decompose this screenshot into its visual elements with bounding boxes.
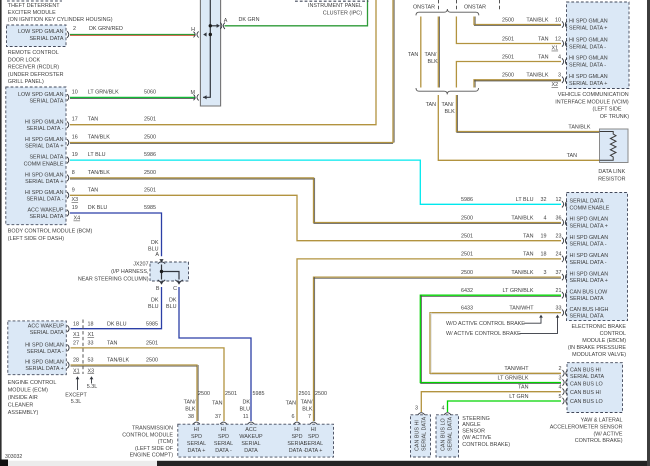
svg-text:TRANSMISSION: TRANSMISSION xyxy=(132,426,173,432)
wire DK BLU 5985 from JX207 C to TCM pin 11 xyxy=(179,287,251,421)
junction dot at H branch xyxy=(209,33,212,36)
svg-text:X1: X1 xyxy=(88,332,95,338)
svg-text:18: 18 xyxy=(73,321,79,327)
svg-text:BLU: BLU xyxy=(240,406,251,412)
svg-text:4: 4 xyxy=(559,385,562,391)
svg-text:5060: 5060 xyxy=(144,89,156,95)
svg-text:STEERING: STEERING xyxy=(462,416,490,422)
svg-text:TAN: TAN xyxy=(538,54,548,60)
svg-text:5: 5 xyxy=(559,394,562,400)
svg-text:SERIAL DATA +: SERIAL DATA + xyxy=(569,81,607,87)
bottom scrollbar xyxy=(0,460,8,466)
svg-text:SERIAL: SERIAL xyxy=(241,441,260,447)
svg-text:A: A xyxy=(155,252,159,258)
svg-text:2500: 2500 xyxy=(144,135,156,141)
svg-text:MODULE (ECM): MODULE (ECM) xyxy=(8,388,48,394)
svg-text:SERIAL DATA -: SERIAL DATA - xyxy=(26,126,63,132)
yaw sensor pin 2 CAN BUS HI SERIAL DATA xyxy=(563,370,568,377)
VCIM pin 10 HI SPD GMLAN SERIAL DATA + xyxy=(562,21,567,28)
svg-text:SERIAL DATA +: SERIAL DATA + xyxy=(25,179,63,185)
svg-text:SERIAL DATA: SERIAL DATA xyxy=(570,296,604,302)
wire TAN from steering sensor pin 3 to yaw sensor pin 4 xyxy=(421,392,561,412)
svg-text:6433: 6433 xyxy=(461,305,473,311)
svg-text:2501: 2501 xyxy=(146,341,158,347)
svg-text:2501: 2501 xyxy=(144,187,156,193)
svg-text:LT GRN/BLK: LT GRN/BLK xyxy=(503,288,534,294)
svg-text:6432: 6432 xyxy=(461,288,473,294)
svg-text:5986: 5986 xyxy=(461,197,473,203)
svg-text:SERIAL DATA +: SERIAL DATA + xyxy=(570,224,608,230)
cut-off module box bottom edge (above theft deterrent text) xyxy=(7,0,62,2)
svg-text:CONTROL BRAKE): CONTROL BRAKE) xyxy=(575,438,623,444)
svg-text:19: 19 xyxy=(72,152,78,158)
pin 2 bracket xyxy=(67,31,69,38)
svg-text:HI: HI xyxy=(311,427,316,433)
svg-text:4: 4 xyxy=(558,54,561,60)
svg-text:SERIAL DATA -: SERIAL DATA - xyxy=(570,242,607,248)
svg-text:HI SPD GMLAN: HI SPD GMLAN xyxy=(570,271,609,277)
wire TAN/BLK 2500 from EBCM pin 37 down to TCM pin 7 xyxy=(314,277,562,421)
svg-text:ELECTRONIC BRAKE: ELECTRONIC BRAKE xyxy=(571,324,626,330)
svg-text:HI: HI xyxy=(294,427,299,433)
wire DK BLU 5985 from JX207 B to ECM pin 18 xyxy=(71,287,162,329)
svg-text:CAN BUS LO: CAN BUS LO xyxy=(441,418,447,451)
svg-text:37: 37 xyxy=(556,270,562,276)
instrument panel cluster box bottom edge (cut off) xyxy=(295,0,369,2)
svg-text:RESISTOR: RESISTOR xyxy=(598,176,626,182)
svg-text:TAN/: TAN/ xyxy=(301,400,313,406)
svg-text:TAN/WHT: TAN/WHT xyxy=(504,366,529,372)
svg-text:5986: 5986 xyxy=(144,152,156,158)
svg-text:X3: X3 xyxy=(72,197,79,203)
svg-text:8: 8 xyxy=(72,170,75,176)
svg-text:HI SPD GMLAN: HI SPD GMLAN xyxy=(569,19,608,25)
svg-text:LT GRN/BLK: LT GRN/BLK xyxy=(88,89,119,95)
svg-text:BLK: BLK xyxy=(428,59,439,65)
svg-text:2500: 2500 xyxy=(146,358,158,364)
branch to terminal H with arrow xyxy=(203,32,206,36)
svg-text:24: 24 xyxy=(556,252,562,258)
svg-text:2501: 2501 xyxy=(461,252,473,258)
splice connector JX207 box xyxy=(150,262,189,281)
svg-text:TAN: TAN xyxy=(523,234,533,240)
svg-text:SERIAL DATA: SERIAL DATA xyxy=(570,374,604,380)
svg-text:18: 18 xyxy=(88,321,94,327)
svg-text:DK: DK xyxy=(243,400,251,406)
svg-text:INSTRUMENT PANEL: INSTRUMENT PANEL xyxy=(308,3,362,9)
wire TAN 2501 VCIM pin 4 branch xyxy=(456,62,561,88)
svg-text:CAN BUS HI: CAN BUS HI xyxy=(570,390,601,396)
svg-text:INTERFACE MODULE (VCIM): INTERFACE MODULE (VCIM) xyxy=(555,99,629,105)
svg-text:TAN: TAN xyxy=(88,117,98,123)
svg-text:ACC: ACC xyxy=(245,427,256,433)
svg-text:CAN BUS LO: CAN BUS LO xyxy=(570,399,603,405)
svg-text:SPD: SPD xyxy=(308,434,319,440)
junction dot at A branch xyxy=(209,24,212,27)
wire TAN/BLK 2500 from ECM pin 28/53 to TCM pin 38 xyxy=(71,365,198,421)
wire TAN to data link resistor xyxy=(438,95,599,160)
svg-text:BLK: BLK xyxy=(445,109,456,115)
svg-text:THEFT DETERRENT: THEFT DETERRENT xyxy=(8,3,60,9)
svg-text:4: 4 xyxy=(544,215,547,221)
ECM connector column separator dashes xyxy=(82,320,84,375)
svg-text:CAN BUS LOW: CAN BUS LOW xyxy=(570,289,609,295)
svg-text:MODULE (EBCM): MODULE (EBCM) xyxy=(582,338,626,344)
svg-text:TAN/BLK: TAN/BLK xyxy=(526,73,548,79)
annotation: 5.3L arrow xyxy=(91,379,93,384)
svg-text:19: 19 xyxy=(541,234,547,240)
svg-text:16: 16 xyxy=(72,135,78,141)
JX207 terminal C exit arrow xyxy=(177,281,181,284)
svg-text:32: 32 xyxy=(541,197,547,203)
in-line harness connector (instrument panel) xyxy=(200,0,220,106)
svg-text:2500: 2500 xyxy=(144,170,156,176)
svg-text:303032: 303032 xyxy=(5,454,22,460)
svg-text:W/O ACTIVE CONTROL BRAKE: W/O ACTIVE CONTROL BRAKE xyxy=(446,321,525,327)
svg-text:SPD: SPD xyxy=(291,434,302,440)
svg-text:BLU: BLU xyxy=(148,304,159,310)
EBCM pin 37 HI SPD GMLAN SERIAL DATA + xyxy=(562,274,567,281)
svg-text:ONSTAR: ONSTAR xyxy=(464,5,486,11)
svg-text:SENSOR: SENSOR xyxy=(462,429,485,435)
svg-text:SERIAL DATA -: SERIAL DATA - xyxy=(570,260,607,266)
svg-text:SERIAL DATA: SERIAL DATA xyxy=(29,155,63,161)
svg-text:VEHICLE COMMUNICATION: VEHICLE COMMUNICATION xyxy=(558,92,629,98)
engine control module pin box xyxy=(8,321,67,375)
svg-text:SERIAL DATA +: SERIAL DATA + xyxy=(570,278,608,284)
svg-text:COMM ENABLE: COMM ENABLE xyxy=(570,205,610,211)
svg-text:10: 10 xyxy=(555,17,561,23)
svg-text:HI SPD GMLAN: HI SPD GMLAN xyxy=(569,74,608,80)
svg-text:DK BLU: DK BLU xyxy=(88,205,108,211)
ECM pins 27/33 HI SPD GMLAN SERIAL DATA - xyxy=(67,345,69,352)
svg-text:EXCEPT: EXCEPT xyxy=(65,393,87,399)
svg-text:2500: 2500 xyxy=(461,270,473,276)
svg-text:TAN: TAN xyxy=(523,252,533,258)
svg-text:3: 3 xyxy=(415,406,418,412)
svg-text:SERIAL DATA +: SERIAL DATA + xyxy=(25,366,63,372)
TCM pin 7 HI SPD SERIAL DATA + xyxy=(310,422,317,424)
svg-text:(LEFT SIDE: (LEFT SIDE xyxy=(593,107,622,113)
JX207 terminal A entry arrow xyxy=(159,259,163,262)
svg-text:SERIAL DATA: SERIAL DATA xyxy=(29,99,63,105)
svg-text:M: M xyxy=(191,90,196,96)
svg-text:ACC WAKEUP: ACC WAKEUP xyxy=(28,323,64,329)
svg-text:5985: 5985 xyxy=(144,205,156,211)
wire TAN 2501 from EBCM pin 24 down to TCM pin 6 xyxy=(297,259,561,421)
svg-text:ASSEMBLY): ASSEMBLY) xyxy=(8,410,39,416)
JX207 internal splice wires xyxy=(161,265,163,280)
svg-text:TAN: TAN xyxy=(408,52,418,58)
annotation: EXCEPT 5.3L arrow xyxy=(77,379,79,390)
wire TAN 2501 from BCM pin 17 up to ONSTAR bundle xyxy=(70,0,376,125)
ECM pins 28/53 HI SPD GMLAN SERIAL DATA + xyxy=(67,362,69,369)
svg-text:SPD: SPD xyxy=(191,434,202,440)
svg-text:DATA LINK: DATA LINK xyxy=(598,169,625,175)
svg-text:SERIAL DATA: SERIAL DATA xyxy=(30,330,64,336)
svg-text:CLUSTER (IPC): CLUSTER (IPC) xyxy=(323,10,362,16)
svg-text:DK GRN: DK GRN xyxy=(239,17,260,23)
svg-text:2: 2 xyxy=(559,366,562,372)
svg-text:SERIAL DATA -: SERIAL DATA - xyxy=(569,63,606,69)
svg-text:TAN: TAN xyxy=(88,187,98,193)
svg-text:SERIAL DATA -: SERIAL DATA - xyxy=(27,349,64,355)
connector internal bus wire xyxy=(203,0,210,97)
svg-text:TAN/BLK: TAN/BLK xyxy=(526,17,548,23)
svg-text:SERIAL DATA +: SERIAL DATA + xyxy=(569,26,607,32)
svg-text:X3: X3 xyxy=(88,368,95,374)
wire TAN/BLK 2500 VCIM pin 10 branch xyxy=(474,17,561,25)
svg-text:CLEANER: CLEANER xyxy=(8,403,34,409)
yaw sensor pin 4 CAN BUS HI xyxy=(563,388,568,395)
wire LT BLU 5986 from BCM pin 19 to EBCM pin 12 xyxy=(70,160,561,204)
svg-text:SERIAL DATA: SERIAL DATA xyxy=(29,214,63,220)
svg-text:SERIAL: SERIAL xyxy=(304,441,323,447)
svg-text:HI SPD GMLAN: HI SPD GMLAN xyxy=(25,190,64,196)
svg-text:(LEFT SIDE OF: (LEFT SIDE OF xyxy=(135,446,174,452)
svg-text:17: 17 xyxy=(72,117,78,123)
svg-text:SERIAL DATA: SERIAL DATA xyxy=(570,199,604,205)
wire TAN/BLK to data link resistor xyxy=(456,95,599,132)
terminal A bracket xyxy=(220,23,225,29)
svg-text:LT BLU: LT BLU xyxy=(516,197,534,203)
wire LT GRN from steering sensor pin 4 to yaw sensor pin 5 xyxy=(448,401,562,412)
module separator dashes xyxy=(438,0,440,10)
svg-text:SERIAL: SERIAL xyxy=(187,441,206,447)
svg-text:37: 37 xyxy=(215,414,221,420)
svg-text:DATA -: DATA - xyxy=(289,448,306,454)
svg-text:28: 28 xyxy=(73,358,79,364)
svg-text:X4: X4 xyxy=(74,216,81,222)
wire TAN/WHT 6433 from EBCM pin 33 to yaw sensor pin 2 xyxy=(430,313,561,374)
svg-text:TAN/WHT: TAN/WHT xyxy=(509,305,534,311)
svg-text:5985: 5985 xyxy=(146,321,158,327)
svg-text:6: 6 xyxy=(292,414,295,420)
wire TAN 2501 VCIM pin 12 branch xyxy=(456,17,561,44)
VCIM pin 4 HI SPD GMLAN SERIAL DATA - xyxy=(562,58,567,65)
svg-text:HI SPD GMLAN: HI SPD GMLAN xyxy=(570,235,609,241)
svg-text:YAW & LATERAL: YAW & LATERAL xyxy=(581,418,623,424)
svg-text:LT GRN/BLK: LT GRN/BLK xyxy=(498,375,529,381)
svg-text:CAN BUS HI: CAN BUS HI xyxy=(570,368,601,374)
svg-text:X1: X1 xyxy=(552,46,559,52)
svg-text:ENGINE COMPT): ENGINE COMPT) xyxy=(130,453,174,459)
EBCM pin 12 SERIAL DATA COMM ENABLE xyxy=(562,201,567,208)
svg-text:ACC WAKEUP: ACC WAKEUP xyxy=(27,208,63,214)
EBCM pin 23 HI SPD GMLAN SERIAL DATA - xyxy=(562,237,567,244)
svg-text:X2: X2 xyxy=(552,82,559,88)
svg-text:TAN: TAN xyxy=(426,102,436,108)
svg-text:DK: DK xyxy=(169,298,177,304)
svg-text:REMOTE CONTROL: REMOTE CONTROL xyxy=(8,50,59,56)
svg-text:ONSTAR: ONSTAR xyxy=(413,5,435,11)
svg-text:SERIAL: SERIAL xyxy=(214,441,233,447)
svg-text:HI SPD GMLAN: HI SPD GMLAN xyxy=(25,343,64,349)
branch to terminal A xyxy=(210,25,217,27)
svg-text:BLK: BLK xyxy=(302,406,313,412)
svg-text:SERIAL DATA -: SERIAL DATA - xyxy=(26,197,63,203)
wire DK GRN/RED from theft deterrent pin 2 to connector H xyxy=(70,34,196,36)
svg-text:EXCITER MODULE: EXCITER MODULE xyxy=(8,10,56,16)
svg-text:OF TRUNK): OF TRUNK) xyxy=(600,114,629,120)
svg-text:TAN: TAN xyxy=(567,153,577,159)
svg-text:DK GRN/RED: DK GRN/RED xyxy=(89,26,123,32)
body control module pin box xyxy=(6,87,66,225)
svg-text:12: 12 xyxy=(555,36,561,42)
svg-text:DATA +: DATA + xyxy=(188,448,206,454)
svg-text:W/ ACTIVE CONTROL BRAKE: W/ ACTIVE CONTROL BRAKE xyxy=(446,331,521,337)
svg-text:B: B xyxy=(156,286,160,292)
svg-text:3: 3 xyxy=(558,73,561,79)
steering angle sensor pin 3 box CAN BUS HI SERIAL DATA xyxy=(411,415,431,457)
svg-text:5985: 5985 xyxy=(253,391,265,397)
svg-text:DATA: DATA xyxy=(244,448,258,454)
svg-text:BLU: BLU xyxy=(166,304,177,310)
svg-text:(ON IGNITION KEY CYLINDER HOUS: (ON IGNITION KEY CYLINDER HOUSING) xyxy=(8,17,113,23)
svg-text:JX207: JX207 xyxy=(133,262,148,268)
svg-text:36: 36 xyxy=(556,215,562,221)
wire TAN/BLK 2500 from BCM pin 16 up to ONSTAR bundle xyxy=(70,0,393,143)
vehicle communication interface module pin box xyxy=(567,2,630,89)
svg-text:38: 38 xyxy=(188,414,194,420)
JX207 terminal B exit arrow xyxy=(159,281,163,284)
svg-text:CONTROL: CONTROL xyxy=(600,331,626,337)
wire DK GRN from connector A to instrument panel cluster xyxy=(225,0,368,26)
svg-text:27: 27 xyxy=(73,341,79,347)
bundle wire TAN (pass-through) xyxy=(420,17,422,88)
svg-text:2500: 2500 xyxy=(502,73,514,79)
svg-text:18: 18 xyxy=(541,252,547,258)
svg-text:TAN/: TAN/ xyxy=(425,52,437,58)
EBCM pin 33 CAN BUS HIGH SERIAL DATA xyxy=(562,309,567,316)
svg-text:11: 11 xyxy=(243,414,249,420)
svg-text:HI SPD GMLAN: HI SPD GMLAN xyxy=(25,360,64,366)
svg-text:(TCM): (TCM) xyxy=(158,439,173,445)
svg-text:CONTROL MODULE: CONTROL MODULE xyxy=(122,432,173,438)
page left border xyxy=(0,0,2,461)
svg-text:H: H xyxy=(191,27,195,33)
svg-text:DK: DK xyxy=(151,298,159,304)
svg-text:HI SPD GMLAN: HI SPD GMLAN xyxy=(569,38,608,44)
svg-text:COMM ENABLE: COMM ENABLE xyxy=(24,161,64,167)
svg-text:MODULATOR VALVE): MODULATOR VALVE) xyxy=(572,352,626,358)
svg-text:CAN BUS LO: CAN BUS LO xyxy=(570,382,603,388)
svg-text:CAN BUS HIGH: CAN BUS HIGH xyxy=(570,307,609,313)
wire TAN/BLK 2500 VCIM pin 3 branch xyxy=(474,80,561,88)
wire LT GRN/BLK 5060 from BCM pin 10 to connector M xyxy=(70,96,196,98)
resistor R zigzag symbol xyxy=(600,132,617,161)
yaw sensor pin 3 CAN BUS LO xyxy=(563,379,568,386)
svg-text:10: 10 xyxy=(72,89,78,95)
svg-text:2: 2 xyxy=(73,26,76,32)
svg-text:TAN/BLK: TAN/BLK xyxy=(88,170,110,176)
svg-text:HI SPD GMLAN: HI SPD GMLAN xyxy=(569,56,608,62)
svg-text:ANGLE: ANGLE xyxy=(462,422,481,428)
svg-text:LT BLU: LT BLU xyxy=(88,152,106,158)
svg-text:DOOR LOCK: DOOR LOCK xyxy=(8,57,41,63)
svg-text:HI: HI xyxy=(221,427,226,433)
wire LT GRN/BLK 6432 from EBCM pin 21 to yaw sensor pin 3 xyxy=(420,295,561,382)
svg-text:HI SPD GMLAN: HI SPD GMLAN xyxy=(25,173,64,179)
svg-text:DATA -: DATA - xyxy=(215,448,232,454)
vertical scrollbar right edge xyxy=(647,0,650,466)
svg-text:(W/ ACTIVE: (W/ ACTIVE xyxy=(593,431,622,437)
VCIM pin 3 HI SPD GMLAN SERIAL DATA + xyxy=(562,76,567,83)
svg-text:33: 33 xyxy=(88,341,94,347)
svg-text:LOW SPD GMLAN: LOW SPD GMLAN xyxy=(18,92,64,98)
svg-text:HI SPD GMLAN: HI SPD GMLAN xyxy=(570,217,609,223)
svg-text:19: 19 xyxy=(72,205,78,211)
svg-text:23: 23 xyxy=(556,234,562,240)
svg-text:3: 3 xyxy=(544,270,547,276)
svg-text:CAN BUS HI: CAN BUS HI xyxy=(414,420,420,451)
wire DK BLU 5985 from BCM pin 19 to splice JX207 A xyxy=(70,213,162,256)
svg-text:RECEIVER (RCDLR): RECEIVER (RCDLR) xyxy=(8,65,59,71)
EBCM pin 36 HI SPD GMLAN SERIAL DATA + xyxy=(562,219,567,226)
svg-text:2500: 2500 xyxy=(502,17,514,23)
ECM pins 18/18 ACC WAKEUP SERIAL DATA xyxy=(67,325,69,332)
svg-text:BODY CONTROL MODULE (BCM): BODY CONTROL MODULE (BCM) xyxy=(8,229,93,235)
svg-text:DK BLU: DK BLU xyxy=(107,321,127,327)
svg-text:LOW SPD GMLAN: LOW SPD GMLAN xyxy=(18,29,64,35)
svg-text:TAN/: TAN/ xyxy=(184,400,196,406)
svg-text:HI SPD GMLAN: HI SPD GMLAN xyxy=(25,119,64,125)
svg-text:(INSIDE AIR: (INSIDE AIR xyxy=(8,395,38,401)
steering angle sensor pin 4 box CAN BUS LO SERIAL DATA xyxy=(436,415,459,457)
arrow into terminal M xyxy=(203,95,206,99)
svg-text:SPD: SPD xyxy=(218,434,229,440)
theft deterrent module pin box: LOW SPD GMLAN SERIAL DATA xyxy=(7,25,67,47)
terminal at connector H xyxy=(194,31,199,37)
svg-text:C: C xyxy=(173,286,177,292)
svg-text:7: 7 xyxy=(308,414,311,420)
svg-text:X1: X1 xyxy=(73,368,80,374)
wire TAN 2501 from BCM pin 9 to EBCM pin 23 xyxy=(70,195,561,240)
svg-text:2501: 2501 xyxy=(502,54,514,60)
EBCM pin 21 CAN BUS LOW SERIAL DATA xyxy=(562,292,567,299)
svg-text:HI SPD GMLAN: HI SPD GMLAN xyxy=(570,253,609,259)
svg-text:2501: 2501 xyxy=(144,117,156,123)
svg-text:TAN/BLK: TAN/BLK xyxy=(511,215,533,221)
svg-text:WAKEUP: WAKEUP xyxy=(239,434,263,440)
VCIM pin 12 HI SPD GMLAN SERIAL DATA - xyxy=(562,40,567,47)
svg-text:HI: HI xyxy=(194,427,199,433)
svg-text:2501: 2501 xyxy=(225,391,237,397)
data link resistor box xyxy=(600,129,629,163)
EBCM pin 24 HI SPD GMLAN SERIAL DATA - xyxy=(562,256,567,263)
svg-text:GRILL PANEL): GRILL PANEL) xyxy=(8,79,44,85)
svg-text:A: A xyxy=(224,18,228,24)
svg-text:5.3L: 5.3L xyxy=(71,399,82,405)
TCM pin 37 HI SPD SERIAL DATA - xyxy=(220,422,227,424)
svg-text:TAN: TAN xyxy=(286,401,296,407)
svg-text:2501: 2501 xyxy=(461,234,473,240)
svg-text:2500: 2500 xyxy=(198,391,210,397)
svg-text:TAN/BLK: TAN/BLK xyxy=(107,358,129,364)
svg-text:TAN/BLK: TAN/BLK xyxy=(568,124,590,130)
bundle wire TAN/BLK (pass-through) xyxy=(437,17,439,88)
svg-text:(UNDER DEFROSTER: (UNDER DEFROSTER xyxy=(8,72,64,78)
svg-text:SERIAL DATA -: SERIAL DATA - xyxy=(569,45,606,51)
svg-text:NEAR STEERING COLUMN): NEAR STEERING COLUMN) xyxy=(78,276,149,282)
svg-text:ACCELEROMETER SENSOR: ACCELEROMETER SENSOR xyxy=(550,425,623,431)
svg-text:TAN: TAN xyxy=(538,36,548,42)
svg-text:(I/P HARNESS,: (I/P HARNESS, xyxy=(111,269,149,275)
svg-text:2500: 2500 xyxy=(461,215,473,221)
svg-text:SERIAL DATA: SERIAL DATA xyxy=(29,36,63,42)
TCM pin 11 ACC WAKEUP SERIAL DATA xyxy=(248,422,255,424)
svg-text:ENGINE CONTROL: ENGINE CONTROL xyxy=(8,380,57,386)
